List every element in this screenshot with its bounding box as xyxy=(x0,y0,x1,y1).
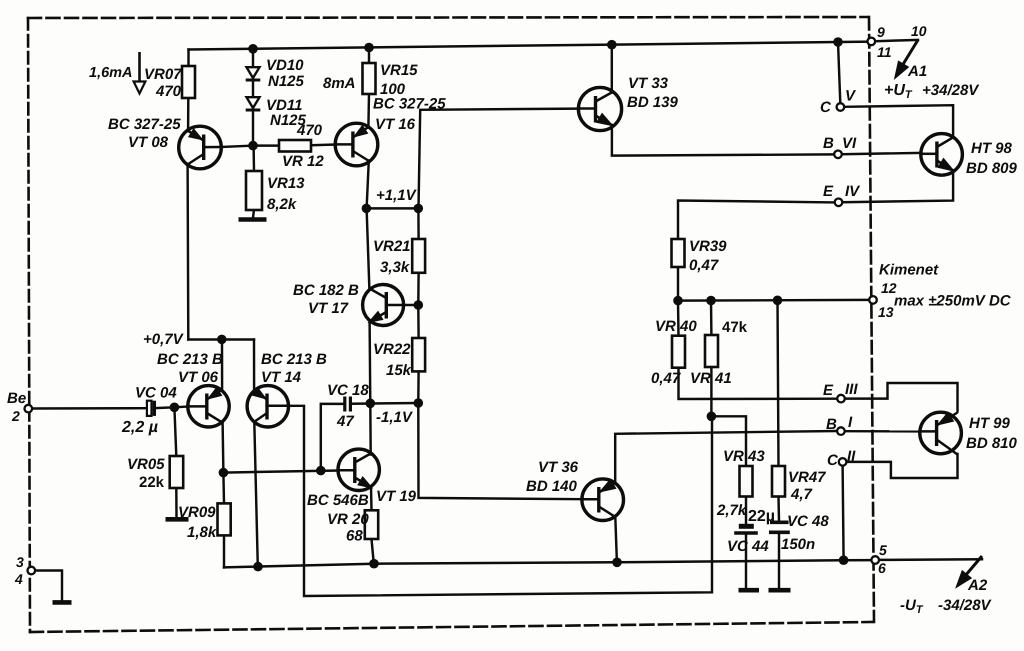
wire input Be to VC04 xyxy=(32,407,147,410)
wire VR07 bottom to VT08 emitter xyxy=(187,98,190,131)
wire B-VI terminal to HT98 base xyxy=(842,153,921,154)
resistor VR22 xyxy=(412,338,425,371)
resistor VR41 xyxy=(705,335,718,367)
svg-text:IV: IV xyxy=(845,183,861,200)
svg-text:VR21: VR21 xyxy=(373,238,411,255)
resistor VR13 xyxy=(246,171,262,210)
wire VR20 bottom to rail xyxy=(372,539,374,564)
svg-text:VR07: VR07 xyxy=(144,66,182,83)
svg-text:HT 99: HT 99 xyxy=(969,415,1011,432)
resistor VR05 xyxy=(170,456,184,488)
wire VR22 top xyxy=(417,305,420,338)
wire VT19 emitter to VR20 xyxy=(370,487,373,511)
transistor VT16 BC327-25 PNP xyxy=(335,123,378,166)
svg-text:C: C xyxy=(820,99,832,116)
node rail / C-II branch xyxy=(839,555,849,565)
node rail / VR20 xyxy=(369,559,379,569)
node rail / VT14 collector xyxy=(253,562,263,572)
wire VR15 bottom to VT16 emitter xyxy=(367,94,370,127)
transistor VT06 BC213B PNP xyxy=(188,386,229,427)
node diode ladder / bases xyxy=(248,141,258,151)
wire VD11 to base node xyxy=(252,111,254,146)
wire rail right of 5/6 to A2 xyxy=(879,558,982,561)
svg-text:B: B xyxy=(826,416,837,433)
svg-text:5: 5 xyxy=(879,542,887,558)
wire VT17 collector up xyxy=(367,208,370,289)
capacitor VC18 xyxy=(343,397,346,412)
node -1,1V left xyxy=(366,399,376,409)
wire VT17 base xyxy=(404,304,419,306)
resistor VR40 xyxy=(672,336,685,368)
ground terminal 3/4 xyxy=(53,600,72,605)
svg-text:22k: 22k xyxy=(139,474,165,491)
diode VD10 xyxy=(247,67,260,78)
wire E-III terminal to HT99 emitter xyxy=(845,383,958,412)
terminal E/IV xyxy=(835,199,843,207)
svg-text:N125: N125 xyxy=(268,73,305,90)
ground below VR05 xyxy=(166,517,189,522)
svg-text:10: 10 xyxy=(911,23,927,39)
transistor VT14 BC213B PNP xyxy=(247,386,288,427)
svg-text:E: E xyxy=(823,382,834,399)
terminal 3/4 xyxy=(28,567,36,575)
svg-text:BC 213 B: BC 213 B xyxy=(157,351,223,368)
wire VT08 collector down xyxy=(186,164,189,340)
svg-text:VT 17: VT 17 xyxy=(308,300,349,317)
resistor VR39 xyxy=(672,239,685,267)
node top rail / VD10 xyxy=(248,44,258,54)
svg-text:2: 2 xyxy=(11,408,20,424)
svg-text:1,8k: 1,8k xyxy=(187,524,217,541)
svg-text:VR 20: VR 20 xyxy=(327,511,369,528)
wire VR47 column top xyxy=(778,300,779,466)
svg-text:150n: 150n xyxy=(781,536,815,553)
svg-text:VT 08: VT 08 xyxy=(128,134,169,151)
svg-text:VT 06: VT 06 xyxy=(178,369,219,386)
arrow A2 xyxy=(957,556,983,587)
svg-text:13: 13 xyxy=(878,304,894,320)
svg-text:BC 327-25: BC 327-25 xyxy=(108,116,181,133)
svg-text:VC 44: VC 44 xyxy=(727,538,769,555)
wire VT33 base left and down to +1,1V node xyxy=(419,109,579,209)
ground below VC48 xyxy=(769,588,791,593)
wire VT06 collector to VT19 base xyxy=(223,471,338,473)
svg-text:max ±250mV DC: max ±250mV DC xyxy=(894,293,1012,310)
wire terminal 3/4 to ground xyxy=(35,571,62,601)
node Kimenet / VR41 xyxy=(706,296,716,306)
svg-text:-1,1V: -1,1V xyxy=(376,409,414,426)
svg-text:470: 470 xyxy=(155,83,182,100)
resistor VR12 xyxy=(279,140,311,152)
wire VT06 collector down xyxy=(221,423,224,473)
wire VD10-VD11 xyxy=(252,81,254,98)
terminal B/VI xyxy=(834,151,842,159)
transistor VT19 BC546B NPN xyxy=(338,449,379,490)
svg-text:VT 16: VT 16 xyxy=(375,116,416,133)
svg-text:VC 04: VC 04 xyxy=(135,385,177,402)
svg-text:II: II xyxy=(847,448,856,465)
node rail / VT36 collector xyxy=(612,558,622,568)
svg-text:VT 19: VT 19 xyxy=(376,488,417,505)
node -1,1V right xyxy=(414,398,424,408)
svg-text:3: 3 xyxy=(16,554,24,570)
svg-text:2,7k: 2,7k xyxy=(716,502,747,519)
wire E-IV left to VR39 xyxy=(678,201,834,240)
svg-text:BD 810: BD 810 xyxy=(966,435,1018,452)
wire C terminal to HT98 collector xyxy=(845,105,954,137)
svg-text:+34/28V: +34/28V xyxy=(922,82,980,99)
wire VR05 top xyxy=(174,407,176,456)
wire VR21 to VR22 node xyxy=(417,273,420,305)
svg-text:15k: 15k xyxy=(386,362,412,379)
svg-text:VR47: VR47 xyxy=(788,469,826,486)
svg-text:8mA: 8mA xyxy=(323,75,356,92)
transistor VT17 BC182B NPN xyxy=(363,285,404,326)
wire HT99 collector to C-II xyxy=(847,454,958,478)
resistor VR21 xyxy=(412,239,425,273)
svg-text:C: C xyxy=(827,452,839,469)
border frame dashed right xyxy=(869,17,874,622)
wire node to VR09 xyxy=(222,473,225,504)
svg-text:BC 546B: BC 546B xyxy=(307,492,369,509)
diode VD11 xyxy=(247,97,260,108)
wire input node to VT06 base xyxy=(174,405,188,408)
svg-text:VR 40: VR 40 xyxy=(655,318,697,335)
svg-text:VT 36: VT 36 xyxy=(538,459,579,476)
svg-text:VR22: VR22 xyxy=(373,341,411,358)
node Kimenet / VR40 xyxy=(673,296,683,306)
node VT06 collector / VR09 xyxy=(219,468,229,478)
svg-text:2,2 µ: 2,2 µ xyxy=(121,419,158,436)
node input / VR05 xyxy=(170,403,180,413)
node +0,7V xyxy=(217,335,227,345)
svg-text:A1: A1 xyxy=(907,63,927,80)
svg-text:BC 327-25: BC 327-25 xyxy=(373,96,446,113)
wire VT19 collector up xyxy=(369,403,372,454)
ground below VC44 xyxy=(739,588,760,593)
wire VT14 emitter up xyxy=(253,340,256,392)
wire VR07 top xyxy=(187,50,189,67)
svg-text:BD 809: BD 809 xyxy=(966,160,1018,177)
node top rail / VR15 xyxy=(364,43,374,53)
transistor HT99 BD810 PNP xyxy=(920,412,962,454)
wire B-I terminal to HT99 base xyxy=(845,430,920,433)
svg-text:VR 41: VR 41 xyxy=(690,370,732,387)
resistor VR09 xyxy=(218,503,231,535)
ground below VR13 xyxy=(239,217,267,222)
svg-text:Kimenet: Kimenet xyxy=(879,262,939,279)
wire top supply rail xyxy=(189,42,872,50)
node +1,1V right xyxy=(414,204,424,214)
wire VR13 to ground xyxy=(253,210,254,218)
wire VC18 left plate branch xyxy=(321,404,344,471)
capacitor VC04 xyxy=(147,401,152,416)
resistor VR43 xyxy=(740,466,753,497)
wire -1,1V node down and to VT36 base xyxy=(418,403,582,499)
svg-text:VR39: VR39 xyxy=(689,238,727,255)
wire VT06 emitter up xyxy=(221,340,224,391)
transistor HT98 BD809 NPN xyxy=(921,134,963,176)
svg-text:VD10: VD10 xyxy=(266,57,304,74)
svg-text:+1,1V: +1,1V xyxy=(376,187,418,204)
wire bottom negative rail xyxy=(224,560,871,567)
border frame dashed top xyxy=(28,17,868,18)
arrow A1 xyxy=(895,40,918,78)
svg-text:47: 47 xyxy=(336,413,354,430)
svg-text:0,47: 0,47 xyxy=(651,370,681,387)
node VC18 / VT19 base xyxy=(316,466,326,476)
svg-text:11: 11 xyxy=(877,44,892,60)
wire VT33 collector up xyxy=(611,45,613,93)
svg-text:BC 182 B: BC 182 B xyxy=(293,282,359,299)
svg-text:VR09: VR09 xyxy=(178,504,216,521)
svg-text:47k: 47k xyxy=(722,319,748,336)
wire VT14 base right and down xyxy=(289,406,713,596)
terminal C/II xyxy=(839,458,847,466)
svg-text:+0,7V: +0,7V xyxy=(143,331,185,348)
wire VR15 top xyxy=(368,48,370,64)
svg-text:9: 9 xyxy=(877,24,885,40)
node Kimenet / VR47 xyxy=(773,296,783,306)
svg-text:VC 48: VC 48 xyxy=(787,513,829,530)
svg-text:6: 6 xyxy=(878,560,886,576)
node top rail / C branch xyxy=(833,37,843,47)
wire VR40 bottom to E-III line xyxy=(679,368,838,399)
wire +0,7V horizontal xyxy=(188,338,254,340)
svg-text:BC 213 B: BC 213 B xyxy=(261,351,327,368)
svg-text:8,2k: 8,2k xyxy=(267,196,297,213)
svg-text:-34/28V: -34/28V xyxy=(938,597,993,614)
svg-text:III: III xyxy=(845,381,858,398)
wire Kimenet line xyxy=(678,299,869,302)
svg-text:1,6mA: 1,6mA xyxy=(89,65,133,81)
capacitor VC44 xyxy=(739,524,754,529)
terminal E/III xyxy=(837,395,845,403)
wire VR41 top xyxy=(710,301,713,336)
node +1,1V left xyxy=(362,204,372,214)
wire -1,1V horizontal xyxy=(352,402,419,405)
wire base node to VR13 xyxy=(252,146,255,171)
capacitor VC48 xyxy=(770,520,789,524)
wire VT33 emitter to B-VI xyxy=(612,125,834,156)
svg-text:VR 43: VR 43 xyxy=(723,448,765,465)
svg-text:BD 139: BD 139 xyxy=(627,94,679,111)
svg-text:VR 12: VR 12 xyxy=(282,153,324,170)
svg-text:A2: A2 xyxy=(967,577,988,594)
svg-text:22µ: 22µ xyxy=(748,508,775,525)
svg-text:Be: Be xyxy=(7,390,26,407)
wire VR22 bottom to -1,1V xyxy=(417,371,420,403)
wire HT98 emitter to E-IV xyxy=(843,170,954,202)
wire VR39 bottom xyxy=(677,267,679,301)
transistor VT36 BD140 PNP xyxy=(582,479,624,521)
wire VR40 top xyxy=(677,301,680,336)
wire VT17 emitter down xyxy=(368,322,371,404)
border frame dashed left xyxy=(28,18,30,632)
wire VR41 bottom to node xyxy=(710,367,712,416)
svg-text:VT 33: VT 33 xyxy=(628,75,669,92)
svg-text:68: 68 xyxy=(346,528,363,545)
svg-text:VT 14: VT 14 xyxy=(261,369,302,386)
wire B-I terminal to VT36 emitter xyxy=(615,431,837,483)
border frame dashed bottom xyxy=(30,622,872,632)
svg-text:4: 4 xyxy=(14,571,23,587)
wire VT14 collector down xyxy=(254,422,257,567)
terminal 12/13 Kimenet xyxy=(869,296,877,304)
transistor VT33 BD139 NPN xyxy=(578,87,621,130)
svg-text:4,7: 4,7 xyxy=(790,486,813,503)
transistor VT08 BC327-25 PNP xyxy=(179,126,222,169)
wire VT08 base to node xyxy=(221,146,253,147)
svg-text:VR13: VR13 xyxy=(267,175,305,192)
wire VR43 to VC44 xyxy=(745,497,747,524)
svg-text:E: E xyxy=(823,183,834,200)
wire base node to VR12 xyxy=(253,144,279,146)
svg-text:B: B xyxy=(823,135,834,152)
svg-text:0,47: 0,47 xyxy=(689,257,719,274)
resistor VR07 xyxy=(182,66,195,98)
svg-text:VR05: VR05 xyxy=(127,456,165,473)
terminal C/V xyxy=(837,103,845,111)
terminal Be/2 xyxy=(25,405,33,413)
wire VR12 to VT16 base xyxy=(311,143,335,146)
wire VR05 bottom to ground xyxy=(175,488,178,517)
svg-text:VR15: VR15 xyxy=(380,62,418,79)
wire terminal 9 to A1 start xyxy=(875,40,918,41)
node VR21/VR22/VT17 base xyxy=(414,300,424,310)
resistor VR47 xyxy=(772,466,785,497)
terminal 5/6 xyxy=(871,556,879,564)
svg-text:3,3k: 3,3k xyxy=(380,259,410,276)
svg-text:VI: VI xyxy=(842,135,857,152)
wire VT36 collector down to rail xyxy=(615,517,617,563)
wire VC48 to ground xyxy=(778,534,780,588)
terminal 9/11 xyxy=(868,38,876,46)
svg-text:HT 98: HT 98 xyxy=(971,140,1013,157)
svg-text:VC 18: VC 18 xyxy=(327,382,369,399)
wire VC04 to input node xyxy=(155,406,174,409)
wire node to VR43 top xyxy=(711,416,746,466)
node top rail / VT33 collector xyxy=(607,40,617,50)
wire VR47 to VC48 xyxy=(777,497,780,522)
wire VR21 top xyxy=(417,208,420,239)
terminal B/I xyxy=(837,427,845,435)
wire VT16 collector down to +1,1V xyxy=(367,161,369,209)
arrow 1,6mA xyxy=(134,52,146,94)
svg-text:470: 470 xyxy=(296,122,323,139)
wire +1,1V horizontal xyxy=(366,207,418,209)
wire top rail node down to C terminal xyxy=(838,42,840,103)
svg-text:BD 140: BD 140 xyxy=(526,478,578,495)
wire VD10 anode xyxy=(252,49,254,67)
resistor VR20 xyxy=(365,510,378,539)
wire VR09 bottom to rail xyxy=(223,535,225,567)
wire VC44 to ground xyxy=(745,534,747,589)
wire C-II down to rail xyxy=(843,466,844,560)
node VR41 / VR43 / VT14 base line xyxy=(707,412,717,422)
resistor VR15 xyxy=(363,63,376,94)
